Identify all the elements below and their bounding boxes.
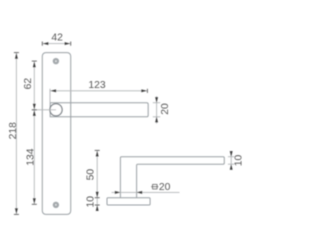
svg-text:50: 50 bbox=[85, 169, 96, 181]
dim dia20 arrow left-pointing bbox=[137, 191, 143, 194]
dim 20 arrow down bbox=[155, 97, 158, 103]
axis extension line bbox=[32, 109, 56, 111]
dim 42 line bbox=[42, 43, 70, 45]
dim 42 tick right bbox=[70, 42, 72, 46]
dim 42 tick left bbox=[41, 42, 43, 46]
dim 123 line bbox=[50, 90, 147, 92]
dim 134 arrow up bbox=[33, 110, 36, 116]
dim 62 line bbox=[33, 61, 35, 110]
svg-text:134: 134 bbox=[25, 148, 36, 166]
screw bottom bbox=[53, 202, 59, 208]
lever side view bbox=[120, 157, 224, 198]
svg-text:123: 123 bbox=[88, 80, 106, 91]
dim 10 left tick top bbox=[95, 197, 100, 199]
dim 20 arrow up bbox=[155, 117, 158, 123]
svg-text:218: 218 bbox=[8, 122, 19, 140]
dim 62 arrow up bbox=[33, 62, 36, 68]
dim 62 arrow down bbox=[33, 104, 36, 110]
dim 62 tick top bbox=[32, 60, 37, 62]
dim 20 extension top bbox=[153, 102, 160, 104]
screw top bbox=[53, 58, 59, 64]
dim 10 left arrow up bbox=[96, 205, 99, 211]
dim 123 arrow left bbox=[51, 89, 57, 92]
dim 10 right extension bottom bbox=[228, 163, 234, 165]
rose circle (front view) bbox=[50, 104, 62, 116]
dim 134 line bbox=[33, 110, 35, 205]
dim dia20 arrow right-pointing bbox=[115, 191, 121, 194]
dim 50 line bbox=[96, 150, 98, 210]
svg-text:10: 10 bbox=[233, 155, 244, 167]
dim 10 right extension top bbox=[228, 156, 234, 158]
svg-text:20: 20 bbox=[159, 182, 171, 193]
dim 134 tick middle bbox=[32, 109, 37, 111]
dim 50 arrow up bbox=[96, 151, 99, 157]
dim 218 tick top bbox=[14, 52, 19, 54]
dim 218 arrow down bbox=[15, 208, 18, 214]
dim 50 arrow down (shared) bbox=[96, 192, 99, 198]
dim 10 right arrow down bbox=[230, 151, 233, 157]
dim 134 tick bottom bbox=[32, 203, 37, 205]
svg-text:10: 10 bbox=[86, 196, 97, 208]
dim 42 arrow left bbox=[43, 42, 49, 45]
dim dia20 leader line bbox=[112, 191, 180, 193]
dim 20 extension bottom bbox=[153, 116, 160, 118]
dim 42 arrow right bbox=[65, 42, 71, 45]
dim 218 line bbox=[15, 53, 17, 215]
dim 10 left tick bottom bbox=[95, 204, 100, 206]
dia symbol bbox=[151, 184, 158, 189]
backplate (front view) bbox=[42, 53, 70, 215]
lever bar (front view) bbox=[50, 103, 148, 117]
dim 134 arrow down bbox=[33, 198, 36, 204]
svg-text:62: 62 bbox=[23, 78, 34, 90]
dim 123 tick right bbox=[146, 89, 148, 93]
rosette side view bbox=[107, 198, 150, 205]
dim 10 right line bbox=[230, 151, 232, 170]
dim 10 right arrow up bbox=[230, 164, 233, 170]
dim 218 arrow up bbox=[15, 53, 18, 59]
svg-text:20: 20 bbox=[160, 103, 171, 115]
dim 20 line bbox=[156, 96, 158, 123]
dim 218 tick bottom bbox=[14, 213, 19, 215]
dim 123 arrow right bbox=[141, 89, 147, 92]
svg-text:42: 42 bbox=[51, 32, 63, 43]
dim 50 tick top bbox=[95, 149, 100, 151]
dim 123 extension left bbox=[49, 89, 51, 103]
